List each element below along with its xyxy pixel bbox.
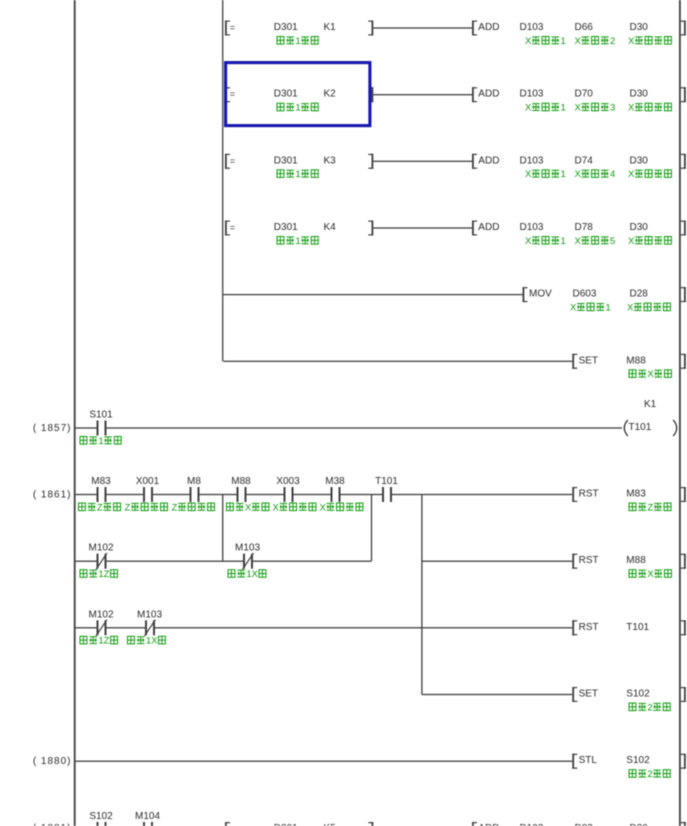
svg-text:X: X [627, 303, 634, 314]
svg-text:1: 1 [295, 169, 300, 180]
svg-text:ADD: ADD [478, 222, 499, 233]
svg-text:1: 1 [561, 36, 566, 47]
svg-text:M103: M103 [235, 543, 260, 554]
svg-text:M83: M83 [91, 476, 111, 487]
svg-text:1: 1 [561, 103, 566, 114]
svg-text:M102: M102 [88, 609, 113, 620]
svg-text:M103: M103 [137, 609, 162, 620]
svg-text:Z: Z [172, 502, 178, 513]
svg-text:ADD: ADD [478, 155, 499, 166]
svg-text:D603: D603 [573, 289, 597, 300]
svg-text:1: 1 [295, 36, 300, 47]
svg-text:D78: D78 [575, 222, 594, 233]
svg-text:4: 4 [610, 169, 615, 180]
svg-text:D30: D30 [630, 222, 649, 233]
svg-text:X: X [575, 236, 582, 247]
svg-text:S102: S102 [89, 811, 113, 822]
svg-text:1: 1 [606, 303, 611, 314]
svg-text:ADD: ADD [478, 22, 499, 33]
svg-text:X: X [245, 502, 252, 513]
svg-text:T101: T101 [629, 422, 652, 433]
svg-text:D301: D301 [274, 155, 298, 166]
svg-text:T101: T101 [626, 622, 649, 633]
svg-text:X: X [525, 36, 532, 47]
svg-text:D103: D103 [520, 89, 544, 100]
svg-text:X: X [151, 636, 158, 647]
svg-text:D70: D70 [575, 89, 594, 100]
svg-text:X: X [575, 103, 582, 114]
svg-text:=: = [230, 23, 235, 33]
svg-text:STL: STL [579, 755, 598, 766]
svg-text:=: = [230, 223, 235, 233]
svg-text:D301: D301 [274, 89, 298, 100]
svg-text:X: X [575, 169, 582, 180]
svg-text:D103: D103 [520, 22, 544, 33]
svg-text:S101: S101 [89, 410, 113, 421]
svg-text:X: X [575, 36, 582, 47]
svg-text:T101: T101 [375, 476, 398, 487]
svg-text:K1: K1 [644, 399, 657, 410]
svg-text:1: 1 [561, 236, 566, 247]
svg-text:X: X [628, 236, 635, 247]
svg-text:Z: Z [125, 502, 131, 513]
svg-text:X: X [628, 36, 635, 47]
svg-text:3: 3 [610, 103, 615, 114]
svg-text:=: = [230, 156, 235, 166]
svg-text:2: 2 [610, 36, 615, 47]
svg-text:RST: RST [579, 622, 599, 633]
svg-text:X003: X003 [276, 476, 300, 487]
svg-text:( 1857): ( 1857) [33, 423, 72, 434]
svg-text:SET: SET [579, 355, 598, 366]
svg-text:SET: SET [579, 689, 598, 700]
svg-text:K2: K2 [324, 89, 337, 100]
svg-text:M104: M104 [135, 811, 160, 822]
svg-text:D30: D30 [630, 22, 649, 33]
svg-text:D103: D103 [520, 155, 544, 166]
svg-text:S102: S102 [626, 689, 650, 700]
svg-text:D30: D30 [630, 155, 649, 166]
svg-text:1: 1 [295, 103, 300, 114]
svg-text:1: 1 [561, 169, 566, 180]
svg-text:D301: D301 [274, 22, 298, 33]
svg-text:X: X [252, 569, 259, 580]
svg-text:Z: Z [97, 502, 103, 513]
svg-text:X: X [647, 569, 654, 580]
svg-text:Z: Z [647, 502, 653, 513]
svg-text:X001: X001 [136, 476, 160, 487]
svg-text:M8: M8 [187, 476, 201, 487]
svg-text:2: 2 [647, 769, 652, 780]
svg-text:K3: K3 [324, 155, 337, 166]
svg-text:MOV: MOV [529, 289, 552, 300]
svg-text:D103: D103 [520, 222, 544, 233]
svg-text:1: 1 [98, 436, 103, 447]
svg-text:S102: S102 [626, 755, 650, 766]
svg-text:RST: RST [579, 555, 599, 566]
svg-text:( 1880): ( 1880) [33, 756, 72, 767]
svg-text:Z: Z [104, 636, 110, 647]
svg-text:X: X [320, 502, 327, 513]
svg-text:D28: D28 [630, 289, 649, 300]
svg-text:K4: K4 [324, 222, 337, 233]
svg-text:X: X [273, 502, 280, 513]
svg-text:M83: M83 [626, 489, 646, 500]
svg-text:M88: M88 [626, 355, 646, 366]
svg-text:( 1861): ( 1861) [33, 490, 72, 501]
svg-text:X: X [525, 103, 532, 114]
svg-text:D301: D301 [274, 222, 298, 233]
svg-text:M102: M102 [88, 543, 113, 554]
svg-text:X: X [570, 303, 577, 314]
svg-text:Z: Z [104, 569, 110, 580]
svg-text:D30: D30 [630, 89, 649, 100]
svg-text:X: X [628, 103, 635, 114]
svg-text:X: X [525, 236, 532, 247]
svg-text:M38: M38 [325, 476, 345, 487]
svg-text:RST: RST [579, 489, 599, 500]
svg-text:M88: M88 [231, 476, 251, 487]
svg-text:D74: D74 [575, 155, 594, 166]
svg-text:X: X [525, 169, 532, 180]
svg-text:K1: K1 [324, 22, 337, 33]
svg-text:X: X [628, 169, 635, 180]
svg-text:D66: D66 [575, 22, 594, 33]
svg-text:X: X [647, 369, 654, 380]
svg-text:=: = [230, 89, 235, 99]
svg-text:5: 5 [610, 236, 615, 247]
svg-text:2: 2 [647, 702, 652, 713]
svg-text:M88: M88 [626, 555, 646, 566]
svg-text:1: 1 [295, 236, 300, 247]
svg-text:ADD: ADD [478, 89, 499, 100]
